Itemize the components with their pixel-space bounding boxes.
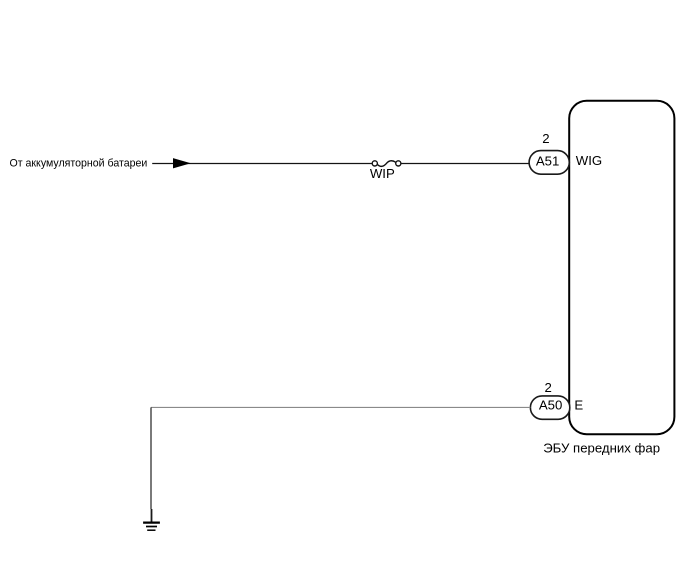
svg-text:WIP: WIP xyxy=(370,166,395,181)
svg-text:2: 2 xyxy=(545,380,552,395)
svg-text:WIG: WIG xyxy=(576,153,602,168)
svg-text:2: 2 xyxy=(542,131,549,146)
svg-text:ЭБУ передних фар: ЭБУ передних фар xyxy=(543,441,660,456)
svg-text:A50: A50 xyxy=(539,398,562,413)
svg-text:E: E xyxy=(574,397,583,412)
svg-text:От аккумуляторной батареи: От аккумуляторной батареи xyxy=(10,157,148,169)
svg-text:A51: A51 xyxy=(536,154,559,169)
